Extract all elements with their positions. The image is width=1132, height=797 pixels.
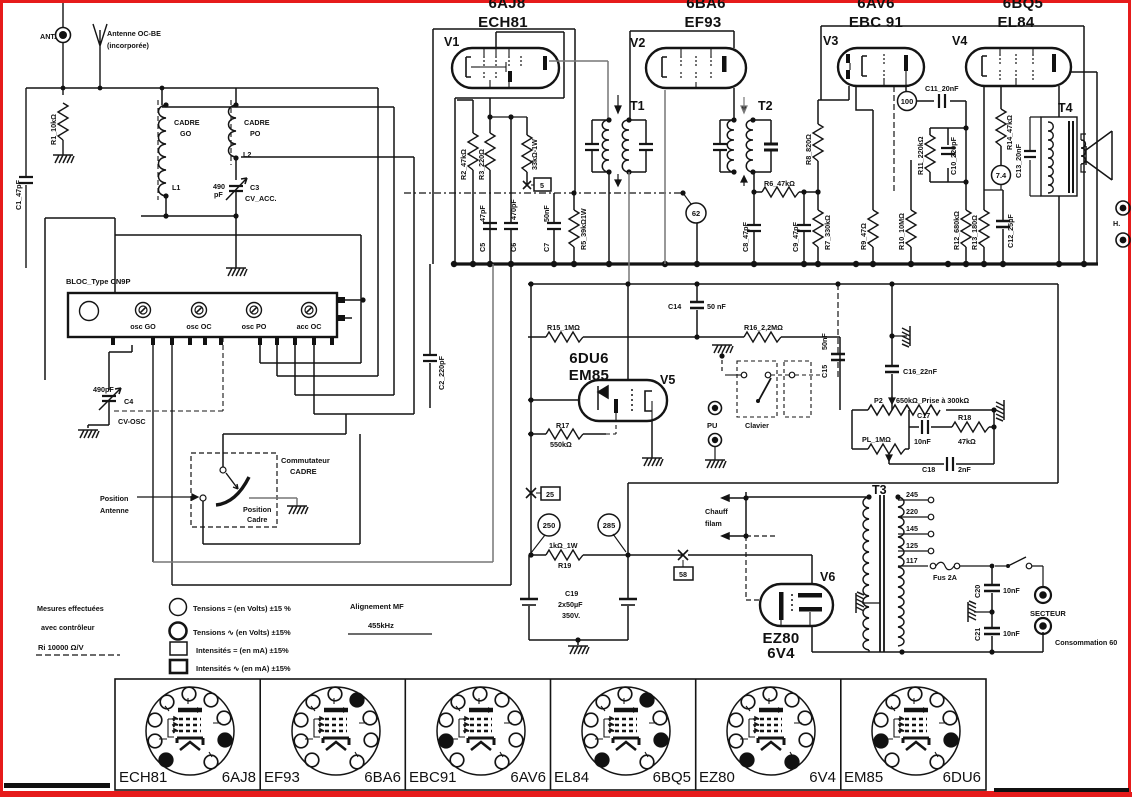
wire V6 cathode down [812, 626, 902, 652]
svg-text:EL84: EL84 [997, 14, 1034, 31]
trimmer knob osc GO [130, 303, 156, 332]
svg-text:Antenne OC-BE: Antenne OC-BE [107, 29, 161, 38]
svg-text:145: 145 [906, 524, 918, 533]
svg-text:Intensités = (en mA) ±15%: Intensités = (en mA) ±15% [196, 646, 289, 655]
svg-text:C19: C19 [565, 589, 578, 598]
speaker [1081, 131, 1112, 180]
resistor R5 39k 1W [569, 190, 588, 264]
svg-text:R8_820Ω: R8_820Ω [804, 134, 813, 165]
capacitor C7 50nF [542, 193, 561, 264]
wire V5 top feed [627, 284, 629, 380]
test point box 25 [536, 487, 560, 500]
wire loop above V1 [433, 29, 575, 264]
wire inner loop above V1 [496, 32, 564, 98]
capacitor C16 22nF [885, 281, 938, 410]
wire C19 common to ground [529, 637, 628, 645]
ground mid mains [968, 601, 995, 622]
svg-text:6BQ5: 6BQ5 [1003, 0, 1043, 12]
IF transformer T2 [713, 97, 778, 186]
commutateur CADRE dashed box [191, 453, 330, 527]
svg-text:R16_2,2MΩ: R16_2,2MΩ [744, 323, 783, 332]
legend row tension DC [170, 599, 292, 616]
svg-text:R1_10kΩ: R1_10kΩ [49, 114, 58, 145]
wire loop above V3/V4 B+ [821, 26, 1084, 264]
svg-text:C15: C15 [820, 365, 829, 378]
wire R19 to V6 anode [688, 555, 812, 584]
trimmer knob acc OC [297, 303, 322, 332]
svg-text:Cadre: Cadre [247, 515, 267, 524]
capacitor C11 20nF [917, 84, 966, 108]
keyboard switch Clavier [725, 361, 777, 430]
svg-text:50nF: 50nF [820, 333, 829, 350]
svg-text:6BA6: 6BA6 [364, 769, 401, 786]
svg-text:PO: PO [250, 129, 261, 138]
svg-text:pF: pF [214, 190, 223, 199]
svg-text:V6: V6 [820, 570, 835, 584]
wire V2 anode down to T2 [733, 88, 735, 118]
svg-text:33kΩ-1W: 33kΩ-1W [530, 139, 539, 170]
svg-text:Position: Position [243, 505, 271, 514]
svg-text:GO: GO [180, 129, 192, 138]
capacitor C8 47pF [741, 172, 761, 264]
svg-text:EF93: EF93 [264, 769, 300, 786]
svg-text:50 nF: 50 nF [707, 302, 726, 311]
resistor R17 550k [528, 421, 616, 449]
svg-text:CV-OSC: CV-OSC [118, 417, 146, 426]
capacitor C13 20nF [1014, 117, 1041, 196]
scan artifact bar bottom right [994, 788, 1129, 792]
svg-text:6V4: 6V4 [767, 645, 795, 662]
svg-text:C14: C14 [668, 302, 681, 311]
svg-text:5: 5 [540, 181, 544, 190]
resistor R1 10k [49, 103, 68, 155]
svg-text:6DU6: 6DU6 [943, 769, 981, 786]
svg-text:R3_220Ω: R3_220Ω [477, 149, 486, 180]
mains switch [990, 557, 1043, 588]
BLOC Type CN9P box [66, 277, 337, 337]
ground commutateur [287, 506, 308, 514]
capacitor C2 220pF [423, 264, 446, 408]
potentiometer P2 650k [852, 396, 994, 415]
test point box 5 with x mark [523, 178, 551, 191]
svg-text:R6_47kΩ: R6_47kΩ [764, 179, 795, 188]
svg-text:2nF: 2nF [958, 465, 971, 474]
svg-text:6BQ5: 6BQ5 [653, 769, 691, 786]
tube V2 EF93 envelope [630, 36, 746, 88]
svg-text:Intensités ∿ (en mA) ±15%: Intensités ∿ (en mA) ±15% [196, 664, 291, 673]
capacitor C12 25uF electrolytic [996, 190, 1015, 264]
svg-text:Tensions = (en Volts) ±15: Tensions = (en Volts) ±15 % [193, 604, 291, 613]
svg-text:P2: P2 [874, 396, 883, 405]
resistor R16 2.2M [697, 323, 840, 410]
variable capacitor C4 CV-OSC [88, 345, 146, 428]
svg-text:R11_220kΩ: R11_220kΩ [916, 136, 925, 175]
svg-text:C2_220pF: C2_220pF [437, 355, 446, 390]
svg-text:Position: Position [100, 494, 128, 503]
svg-text:Clavier: Clavier [745, 421, 769, 430]
svg-text:C13_20nF: C13_20nF [1014, 143, 1023, 178]
svg-text:6BA6: 6BA6 [686, 0, 726, 12]
wire measurement column [526, 284, 536, 555]
resistor R8 820 [804, 86, 849, 192]
svg-text:filam: filam [705, 519, 722, 528]
coil L1 CADRE GO [158, 88, 200, 216]
T3 tap 125 [898, 541, 934, 554]
wire right B+ drop [1071, 72, 1097, 264]
capacitor C5 47pF [478, 205, 497, 252]
svg-text:R17: R17 [556, 421, 569, 430]
svg-text:C18: C18 [922, 465, 935, 474]
svg-text:250: 250 [543, 521, 556, 530]
wire AGC dash-dot line [404, 192, 683, 194]
svg-text:C17: C17 [917, 411, 930, 420]
IF transformer T1 [585, 95, 653, 284]
capacitor C9 47pF [791, 189, 811, 264]
svg-text:Chauff: Chauff [705, 507, 728, 516]
antenna jack ANT [40, 3, 71, 95]
svg-text:T3: T3 [872, 483, 887, 497]
tube V5 electrodes [598, 386, 652, 421]
power transformer T3 [746, 483, 904, 652]
legend row intensite AC [170, 660, 291, 673]
svg-text:R2_47kΩ: R2_47kΩ [459, 149, 468, 180]
socket EF93/6BA6 [292, 687, 380, 775]
resistor R4 33k-1W [522, 117, 539, 184]
svg-text:R12_680kΩ: R12_680kΩ [952, 211, 961, 250]
legend row intensite DC [170, 642, 289, 655]
capacitor C21 10nF [973, 612, 1020, 652]
svg-text:C9_47pF: C9_47pF [791, 221, 800, 252]
svg-text:V1: V1 [444, 35, 459, 49]
svg-text:V2: V2 [630, 36, 645, 50]
svg-text:C4: C4 [124, 397, 133, 406]
svg-text:V4: V4 [952, 34, 967, 48]
svg-text:10nF: 10nF [914, 437, 931, 446]
ground T3 core [856, 592, 880, 613]
svg-text:H.: H. [1113, 219, 1120, 228]
socket row outer box [115, 679, 986, 790]
capacitor C20 10nF [973, 566, 1020, 612]
wire loop above V2 [630, 31, 734, 120]
wire nest loop 4 [115, 235, 361, 363]
socket EZ80/6V4 [727, 687, 815, 775]
svg-text:10nF: 10nF [1003, 629, 1020, 638]
T3 tap 245 [898, 490, 934, 503]
resistor R6 47k [754, 179, 821, 197]
svg-text:C7: C7 [542, 243, 551, 252]
svg-text:58: 58 [679, 570, 687, 579]
socket EL84/6BQ5 [582, 687, 670, 775]
svg-text:100: 100 [901, 97, 914, 106]
svg-text:EZ80: EZ80 [699, 769, 735, 786]
border bottom red thick [0, 792, 1132, 797]
svg-text:C16_22nF: C16_22nF [903, 367, 938, 376]
svg-text:acc OC: acc OC [297, 322, 322, 331]
trimmer knob osc OC [186, 303, 211, 332]
svg-text:650kΩ_Prise à 300kΩ: 650kΩ_Prise à 300kΩ [896, 396, 969, 405]
svg-text:SECTEUR: SECTEUR [1030, 609, 1066, 618]
svg-text:C12_25µF: C12_25µF [1006, 214, 1015, 248]
resistor R10 10M [897, 160, 916, 264]
svg-text:osc GO: osc GO [130, 322, 156, 331]
svg-text:245: 245 [906, 490, 918, 499]
wire V3 grid dashed [893, 86, 895, 193]
svg-text:T2: T2 [758, 99, 773, 113]
wire heater rails [153, 264, 511, 585]
tube V2 electrodes [662, 48, 727, 88]
tube V1 ECH81 envelope [444, 35, 559, 88]
capacitor C1 47pF [14, 88, 33, 268]
svg-text:EBC 91: EBC 91 [849, 14, 903, 31]
svg-text:ECH81: ECH81 [119, 769, 167, 786]
wire nest loop 3 [241, 157, 414, 414]
svg-text:V5: V5 [660, 373, 675, 387]
svg-text:C5: C5 [478, 243, 487, 252]
capacitor C10 220pF [941, 128, 958, 182]
svg-text:Consommation 60: Consommation 60 [1055, 638, 1117, 647]
svg-text:CV_ACC.: CV_ACC. [245, 194, 277, 203]
svg-text:Tensions ∿ (en Volts) ±15%: Tensions ∿ (en Volts) ±15% [193, 628, 291, 637]
resistor R7 330k [813, 189, 832, 264]
svg-text:Ri 10000 Ω/V: Ri 10000 Ω/V [38, 643, 84, 652]
svg-text:R13_180Ω: R13_180Ω [970, 215, 979, 250]
ground under C4 [78, 430, 99, 438]
svg-text:R9_47Ω: R9_47Ω [859, 223, 868, 250]
tube V6 EZ80 envelope [760, 570, 835, 626]
resistor R14 47k [996, 86, 1014, 166]
svg-text:R10_10MΩ: R10_10MΩ [897, 213, 906, 250]
resistor R15 1M [528, 323, 700, 342]
svg-text:6AV6: 6AV6 [857, 0, 895, 12]
tube name label 6DU6/EM85 [569, 350, 609, 384]
socket row dividers [260, 679, 841, 790]
svg-text:Antenne: Antenne [100, 506, 129, 515]
svg-text:C20: C20 [973, 585, 982, 598]
svg-text:6AV6: 6AV6 [510, 769, 546, 786]
ground under PU [705, 460, 726, 468]
capacitor C19b electrolytic [558, 483, 637, 640]
svg-text:50nF: 50nF [542, 205, 551, 222]
svg-text:R5_39kΩ1W: R5_39kΩ1W [579, 208, 588, 250]
antenna symbol Antenne OC-BE [93, 24, 161, 88]
keyboard switch second section dashed [771, 361, 820, 417]
trimmer knob osc PO [242, 303, 267, 332]
svg-text:550kΩ: 550kΩ [550, 440, 572, 449]
wire V5 left grid [528, 397, 579, 402]
wire commutator common down [203, 434, 360, 544]
wire commutator to ground [249, 498, 297, 506]
svg-text:Mesures effectuées: Mesures effectuées [37, 604, 104, 613]
svg-text:47kΩ: 47kΩ [958, 437, 976, 446]
ground at P2 end [991, 400, 1004, 421]
scan artifact bar bottom left [4, 783, 110, 788]
svg-text:osc OC: osc OC [186, 322, 211, 331]
ground under C3 [226, 268, 247, 276]
capacitor C19a electrolytic [520, 555, 538, 640]
svg-text:C8_47pF: C8_47pF [741, 221, 750, 252]
output transformer T4 [1041, 86, 1077, 264]
measure circle 100 [898, 86, 917, 111]
svg-text:6DU6: 6DU6 [569, 350, 609, 367]
wire antenna top rail [26, 86, 378, 91]
svg-text:ANT.: ANT. [40, 32, 56, 41]
wire nest loop 1 [277, 88, 378, 376]
svg-text:R7_330kΩ: R7_330kΩ [823, 215, 832, 250]
wire mains bottom [899, 632, 1043, 655]
svg-text:2x50µF: 2x50µF [558, 600, 583, 609]
svg-text:L1: L1 [172, 183, 180, 192]
measure circle 250 [531, 514, 560, 553]
resistor R3 220 [477, 98, 495, 264]
wire V5 anode to ground [651, 421, 653, 458]
heater supply arrows Chauff filam [705, 492, 778, 600]
tube name label 6AJ8/ECH81 [478, 0, 528, 31]
svg-text:10nF: 10nF [1003, 586, 1020, 595]
svg-text:T1: T1 [630, 99, 645, 113]
label Position Antenne with arrow [100, 494, 198, 515]
wire nest loop 2 [162, 107, 394, 395]
svg-text:117: 117 [906, 556, 918, 565]
capacitor C14 50nF [668, 284, 726, 337]
tube V4 EL84 envelope [952, 34, 1071, 86]
tube V6 electrodes [779, 592, 822, 626]
wire under V1 to bus [455, 98, 564, 264]
svg-text:Alignement MF: Alignement MF [350, 602, 404, 611]
BLOC bottom pin stubs [111, 337, 334, 345]
svg-text:CADRE: CADRE [174, 118, 200, 127]
wire V2 grid column [664, 90, 666, 264]
ground under R1 [53, 155, 74, 163]
svg-text:7.4: 7.4 [996, 171, 1007, 180]
svg-text:6AJ8: 6AJ8 [488, 0, 525, 12]
legend row tension AC [170, 623, 291, 640]
svg-text:PU: PU [707, 421, 717, 430]
tube name label EZ80/6V4 [762, 630, 799, 662]
svg-text:6AJ8: 6AJ8 [222, 769, 256, 786]
wire BLOC pin osc GO down [152, 345, 154, 562]
svg-text:(incorporée): (incorporée) [107, 41, 150, 50]
svg-text:C10_220pF: C10_220pF [949, 136, 958, 175]
svg-text:R14_47kΩ: R14_47kΩ [1005, 115, 1014, 150]
socket ECH81/6AJ8 [146, 687, 234, 775]
resistor R13 180 [970, 86, 989, 264]
legend underline [36, 654, 120, 656]
capacitor C18 2nF [889, 457, 994, 474]
dashed link CV-OSC [114, 337, 223, 411]
SECTEUR mains jacks [1030, 587, 1066, 634]
variable capacitor C3 CV-ACC [213, 178, 277, 216]
tube V1 electrodes [466, 48, 547, 88]
svg-text:125: 125 [906, 541, 918, 550]
wire L1/C3 common [141, 213, 239, 268]
svg-text:6V4: 6V4 [809, 769, 836, 786]
ground above clavier [712, 345, 733, 374]
ground C19 [568, 646, 589, 654]
resistor R18 47k [952, 410, 997, 464]
svg-text:490pF: 490pF [93, 385, 114, 394]
svg-text:R18: R18 [958, 413, 971, 422]
potentiometer PL 1M [852, 410, 909, 461]
svg-text:avec contrôleur: avec contrôleur [41, 623, 95, 632]
svg-text:CADRE: CADRE [290, 467, 317, 476]
svg-text:PL_1MΩ: PL_1MΩ [862, 435, 891, 444]
svg-text:EL84: EL84 [554, 769, 589, 786]
commutator switch contacts [200, 467, 271, 524]
resistor R19 1k 1W [528, 541, 683, 570]
BLOC side pins [337, 297, 366, 321]
wire second bus [528, 281, 1058, 286]
svg-text:T4: T4 [1058, 101, 1073, 115]
PU input jacks [707, 402, 722, 461]
legend Mesures effectuees [37, 604, 104, 652]
capacitor C6 470pF [487, 114, 527, 264]
svg-text:R19: R19 [558, 561, 571, 570]
capacitor C17 10nF [909, 410, 952, 446]
svg-text:C6: C6 [509, 243, 518, 252]
svg-text:25: 25 [546, 490, 554, 499]
svg-text:C11_20nF: C11_20nF [925, 84, 959, 93]
resistor R9 47 [856, 86, 878, 264]
T3 tap 117 with fuse Fus 2A [898, 556, 992, 582]
ground stub mid [889, 326, 910, 347]
svg-text:455kHz: 455kHz [368, 621, 394, 630]
svg-text:EBC91: EBC91 [409, 769, 457, 786]
svg-text:EM85: EM85 [844, 769, 883, 786]
legend Alignement MF [348, 602, 432, 634]
measure circle 62 [680, 190, 706, 264]
tube V3 electrodes [846, 54, 908, 86]
svg-text:CADRE: CADRE [244, 118, 270, 127]
svg-text:C3: C3 [250, 183, 259, 192]
measure circle 285 [598, 514, 626, 552]
svg-text:R15_1MΩ: R15_1MΩ [547, 323, 580, 332]
wire V1 anode to T1 [549, 61, 608, 118]
svg-text:V3: V3 [823, 34, 838, 48]
socket EM85/6DU6 [872, 687, 960, 775]
HP output jacks [1113, 201, 1130, 247]
resistor R12 680k [952, 209, 971, 264]
junction dots on main bus [451, 261, 1087, 267]
resistor R2 47k [457, 100, 478, 264]
svg-text:47pF: 47pF [478, 205, 487, 222]
wire BLOC pin down long [171, 345, 173, 585]
wire B+ right drop [628, 284, 1058, 483]
socket EBC91/6AV6 [437, 687, 525, 775]
capacitor C15 50nF [820, 284, 845, 380]
svg-text:1kΩ_1W: 1kΩ_1W [549, 541, 578, 550]
tube V3 EBC91 envelope [823, 34, 924, 86]
wire HT bus (main B- bus) [452, 262, 1098, 265]
svg-text:osc PO: osc PO [242, 322, 267, 331]
tube V5 EM85 envelope [579, 373, 675, 421]
tube V4 electrodes [982, 48, 1056, 86]
tube name label 6BA6/EF93 [684, 0, 725, 31]
wire commutator to nest [223, 414, 346, 467]
svg-text:C21: C21 [973, 628, 982, 641]
tube name label 6BQ5/EL84 [997, 0, 1043, 31]
svg-text:BLOC_Type CN9P: BLOC_Type CN9P [66, 277, 130, 286]
svg-text:470pF: 470pF [509, 199, 518, 220]
tube name label 6AV6/EBC91 [849, 0, 903, 31]
svg-text:285: 285 [603, 521, 616, 530]
coil L2 CADRE PO [229, 88, 270, 180]
measure circle 7.4 [984, 166, 1011, 191]
test point x and box 58 [674, 550, 693, 580]
resistor R11 220k [916, 101, 969, 209]
svg-text:C1_47pF: C1_47pF [14, 179, 23, 210]
svg-text:Fus 2A: Fus 2A [933, 573, 957, 582]
T3 tap 145 [898, 524, 934, 537]
